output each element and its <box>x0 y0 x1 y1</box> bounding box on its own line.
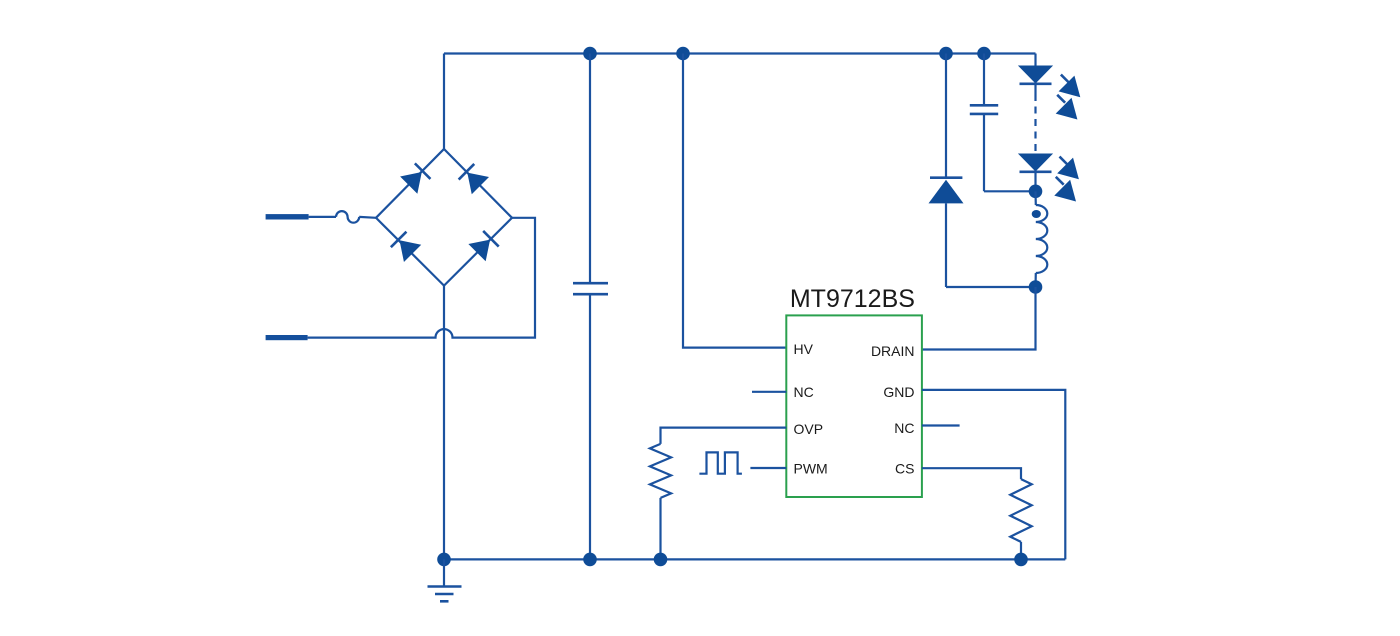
svg-text:NC: NC <box>794 384 814 400</box>
node dot rail-HV <box>676 47 690 61</box>
wire D5 anode to inductor node <box>946 286 1036 288</box>
LED2 emission arrows <box>1054 157 1079 202</box>
wire <box>359 216 376 219</box>
svg-text:NC: NC <box>894 420 914 436</box>
svg-text:DRAIN: DRAIN <box>871 343 915 359</box>
LED LED2 <box>1018 154 1053 192</box>
node dot gnd-bridge <box>437 553 451 567</box>
AC input terminal L (top bar) <box>266 214 309 219</box>
PWM waveform symbol <box>699 452 742 473</box>
node dot LED2-L1 <box>1029 185 1043 199</box>
capacitor C2 (output) <box>970 54 998 192</box>
node dot L1-DRAIN <box>1029 280 1043 294</box>
svg-text:GND: GND <box>883 384 914 400</box>
AC input terminal N (bottom bar) <box>266 335 308 340</box>
inductor L1 polarity dot <box>1032 210 1041 218</box>
inductor L1 <box>1036 191 1048 287</box>
wire C2 to LED node <box>984 190 1036 192</box>
node dot rail-C1 <box>583 47 597 61</box>
svg-text:OVP: OVP <box>794 421 824 437</box>
stub NC left <box>752 391 786 393</box>
wire top rail <box>444 52 1036 54</box>
diode D4 (bridge bottom-right) <box>468 231 498 261</box>
IC U1 box <box>786 315 922 497</box>
fuse F1 squiggle <box>336 211 359 223</box>
wire bridge top to top rail <box>443 54 445 150</box>
resistor R2 <box>1010 479 1031 542</box>
LED LED1 <box>1018 54 1053 95</box>
stub PWM <box>750 467 786 469</box>
wire OVP to resistor R1 <box>661 428 787 444</box>
svg-text:PWM: PWM <box>794 460 828 476</box>
LED1 emission arrows <box>1056 75 1081 120</box>
freewheeling diode D5 <box>929 54 964 288</box>
node dot rail-D5 <box>939 47 953 61</box>
diode D1 (bridge top-left) <box>400 163 430 193</box>
capacitor C1 (bulk) <box>573 54 608 560</box>
node dot gnd-R2 <box>1014 553 1028 567</box>
wire GND pin to ground rail <box>922 390 1065 560</box>
svg-text:HV: HV <box>794 341 814 357</box>
resistor R1 <box>650 444 671 498</box>
wire R2 to ground rail <box>1020 542 1022 560</box>
ground symbol <box>428 559 462 601</box>
svg-text:MT9712BS: MT9712BS <box>790 285 915 313</box>
node dot gnd-C1 <box>583 553 597 567</box>
wire CS to resistor R2 <box>922 468 1021 479</box>
diode D2 (bridge top-right) <box>459 164 489 194</box>
wire ground rail <box>444 558 1065 560</box>
dashed wire LED1-LED2 <box>1034 94 1036 152</box>
wire HV pin to top rail <box>683 54 786 348</box>
wire R1 to ground rail <box>659 498 661 560</box>
node dot gnd-R1 <box>654 553 668 567</box>
wire DRAIN pin <box>922 287 1036 350</box>
node dot rail-C2 <box>977 47 991 61</box>
wire with hop over vertical <box>308 218 535 338</box>
wire <box>309 216 336 218</box>
diode D3 (bridge bottom-left) <box>391 232 421 262</box>
stub NC right <box>922 424 960 426</box>
svg-text:CS: CS <box>895 460 914 476</box>
bridge rectifier BR1 diamond <box>376 149 512 286</box>
wire bridge bottom to ground rail <box>443 286 445 560</box>
